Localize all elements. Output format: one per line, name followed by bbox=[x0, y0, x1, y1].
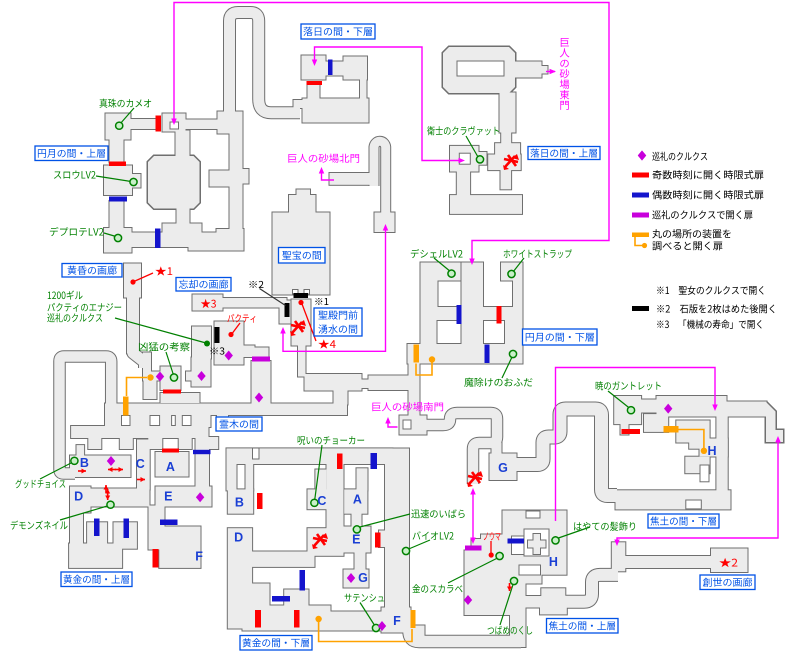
callout デモンズネイル bbox=[60, 506, 109, 521]
巡礼のクルクス diamond bbox=[378, 621, 386, 631]
red dot bbox=[489, 552, 494, 557]
巡礼のクルクス diamond bbox=[638, 151, 646, 161]
label ノウマ bbox=[484, 532, 501, 540]
door black ※2 bbox=[285, 303, 290, 317]
marker circle 衛士のクラヴァット bbox=[476, 156, 483, 163]
area label 忘却の画廊 bbox=[176, 278, 231, 292]
callout はやての髪飾り bbox=[557, 527, 590, 539]
label 迅速のいばら bbox=[411, 509, 464, 518]
legend orange device bbox=[632, 233, 649, 238]
svg-text:F: F bbox=[195, 550, 203, 564]
cross room inside 焦土上層 hole bbox=[528, 534, 547, 555]
pointer 北門 text bbox=[322, 171, 335, 180]
door blue 黄金上層 E bbox=[160, 520, 178, 526]
label はやての髪飾り bbox=[574, 522, 635, 531]
marker circle デシェルLV2 bbox=[448, 270, 455, 277]
callout ※2 bbox=[260, 289, 286, 306]
door blue 焦土上層 bbox=[508, 539, 525, 544]
door orange 焦土下層 bbox=[664, 426, 679, 433]
巡礼のクルクス diamond bbox=[225, 351, 233, 361]
hole 焦土上層 bbox=[524, 529, 549, 556]
label スロウLV2 bbox=[54, 170, 96, 178]
red scribble marker bbox=[312, 533, 328, 549]
orange device dot bbox=[701, 448, 707, 454]
callout ★1 bbox=[135, 273, 153, 281]
red arrow bbox=[78, 470, 86, 472]
label ※3 bbox=[210, 347, 224, 354]
route 焦土下層E-創世 bbox=[617, 440, 778, 542]
marker circle スロウLV2 bbox=[130, 178, 137, 185]
legend red door bbox=[632, 173, 649, 178]
callout 暁のガントレット bbox=[608, 391, 630, 409]
marker circle はやての髪飾り bbox=[552, 537, 559, 544]
red arrow bbox=[107, 492, 109, 500]
callout 凶猛の考察 bbox=[166, 352, 174, 375]
label デシェルLV2 bbox=[411, 249, 463, 258]
door magenta 霊木 bbox=[252, 357, 270, 362]
door red 黄金下層 S1 bbox=[255, 610, 261, 628]
marker circle デプロテLV2 bbox=[114, 234, 121, 241]
svg-text:A: A bbox=[353, 493, 362, 507]
door red ring top bbox=[156, 116, 162, 132]
callout パクティ bbox=[233, 323, 241, 333]
red scribble marker bbox=[467, 471, 483, 487]
callout 迅速のいばら bbox=[358, 514, 410, 528]
door red 黄金上層 top bbox=[162, 449, 179, 453]
pointer 東門 bbox=[546, 71, 555, 73]
door magenta 焦土上層 bbox=[465, 546, 482, 551]
callout 真珠のカメオ bbox=[120, 108, 134, 124]
label 真珠のカメオ bbox=[100, 99, 152, 108]
legend magenta door bbox=[632, 213, 649, 218]
door blue 黄金下層 S bbox=[272, 596, 290, 602]
marker circle つばめのくし bbox=[510, 577, 517, 584]
notch 聖宝 1 bbox=[293, 290, 299, 295]
marker circle 凶猛の考察 bbox=[170, 374, 177, 381]
svg-text:H: H bbox=[707, 444, 716, 458]
red arrow bbox=[115, 469, 123, 471]
callout 巡礼のクルクス device bbox=[115, 318, 206, 343]
callout 呪いのチョーカー bbox=[315, 445, 322, 500]
hole loop 落日上層 bbox=[457, 61, 504, 76]
hole 衛士 square bbox=[459, 153, 470, 164]
door red 黄金上層 F bbox=[153, 549, 159, 568]
notch 焦土上層 top bbox=[526, 511, 540, 518]
label 呪いのチョーカー bbox=[298, 436, 364, 445]
svg-text:E: E bbox=[164, 490, 172, 504]
巡礼のクルクス diamond bbox=[156, 372, 164, 382]
red arrow bbox=[108, 469, 116, 471]
door orange 円月下層 bbox=[414, 345, 420, 363]
hole 焦土下層 S bbox=[700, 465, 709, 482]
巡礼のクルクス diamond bbox=[197, 371, 205, 381]
area label 黄昏の画廊 bbox=[62, 264, 122, 278]
label 暁のガントレット bbox=[596, 381, 661, 390]
巡礼のクルクス diamond bbox=[196, 492, 204, 502]
巡礼のクルクス diamond bbox=[464, 595, 472, 605]
door blue ring left bbox=[109, 197, 127, 202]
device line 霊木 bbox=[127, 378, 148, 397]
door blue 黄金上層 C bbox=[124, 519, 130, 539]
area label 聖殿門前/湧水の間 bbox=[314, 308, 362, 336]
callout バイオLV2 bbox=[408, 540, 431, 550]
device line 円月下層 bbox=[416, 363, 432, 376]
label バイオLV2 bbox=[413, 531, 454, 540]
marker circle 真珠のカメオ bbox=[116, 122, 123, 129]
legend 巡礼のクルクス bbox=[638, 151, 646, 161]
label 凶猛の考察 bbox=[139, 342, 190, 351]
callout 魔除けのおふだ bbox=[502, 356, 513, 378]
marker circle 呪いのチョーカー bbox=[311, 499, 318, 506]
door blue 黄金下層 mid bbox=[300, 570, 306, 591]
svg-text:B: B bbox=[235, 496, 244, 510]
notch 聖宝 2 bbox=[304, 290, 310, 295]
area label 創世の画廊 bbox=[700, 575, 755, 590]
device line 黄金下層F bbox=[319, 621, 412, 642]
red arrow bbox=[509, 583, 511, 591]
red arrow bbox=[137, 479, 145, 481]
callout ★4/※1 bbox=[302, 304, 316, 341]
door red ring left bbox=[109, 162, 126, 167]
door blue ring bottom bbox=[155, 229, 161, 249]
legend ※1 bbox=[657, 286, 763, 295]
svg-text:C: C bbox=[317, 494, 326, 508]
callout 金のスカラベ bbox=[448, 558, 499, 584]
legend blue door bbox=[632, 193, 649, 198]
door red 黄金下層 E bbox=[375, 533, 381, 548]
label 巨人の砂場南門 bbox=[372, 402, 443, 411]
label 1200ギル bbox=[48, 290, 83, 299]
label グッドチョイス bbox=[15, 479, 65, 488]
route 北門stub-湧水 bbox=[283, 228, 386, 351]
orange device dot bbox=[429, 356, 435, 362]
marker circle グッドチョイス bbox=[71, 457, 78, 464]
door red 黄金下層 top bbox=[337, 454, 343, 470]
orange device dot bbox=[147, 374, 153, 380]
red scribble marker bbox=[290, 320, 306, 336]
route 円月上層portal-円月下層 bbox=[174, 3, 609, 262]
label つばめのくし bbox=[488, 626, 533, 635]
door red 黄金下層 B bbox=[257, 493, 263, 509]
svg-text:G: G bbox=[358, 571, 368, 585]
route 南門hook-焦土上層door bbox=[472, 492, 474, 540]
marker circle 迅速のいばら bbox=[353, 526, 360, 533]
callout 衛士のクラヴァット bbox=[466, 136, 478, 157]
callout ホワイトストラップ bbox=[513, 258, 524, 272]
marker circle ホワイトストラップ bbox=[508, 270, 515, 277]
door red 焦土下層 bbox=[622, 429, 641, 434]
area label 焦土の間・下層 bbox=[648, 514, 719, 528]
callout デプロテLV2 bbox=[104, 233, 116, 237]
label 巡礼のクルクス bbox=[47, 313, 102, 322]
巡礼のクルクス diamond bbox=[347, 573, 355, 583]
area label 焦土の間・上層 bbox=[547, 619, 619, 634]
device line 焦土下層 bbox=[679, 430, 704, 449]
area label 落日の間・下層 bbox=[301, 24, 375, 39]
notch 焦土下層 bottom bbox=[686, 500, 702, 509]
door red 円月下層 bbox=[497, 306, 502, 324]
label 巨人の砂場北門 bbox=[288, 154, 359, 163]
marker circle デモンズネイル bbox=[107, 501, 114, 508]
marker circle バイオLV2 bbox=[402, 547, 409, 554]
callout サテンシュ bbox=[360, 603, 375, 627]
svg-text:E: E bbox=[352, 533, 360, 547]
marker circle 魔除けのおふだ bbox=[509, 350, 516, 357]
label サテンシュ bbox=[345, 594, 384, 602]
label 衛士のクラヴァット bbox=[427, 126, 499, 135]
area label 落日の間・上層 bbox=[528, 147, 600, 160]
area label 黄金の間・下層 bbox=[240, 636, 312, 651]
label ※1 bbox=[315, 298, 328, 305]
hole portal room bbox=[170, 122, 179, 129]
巡礼のクルクス diamond bbox=[107, 456, 115, 466]
label デモンズネイル bbox=[11, 520, 68, 529]
marker circle 金のスカラベ bbox=[496, 552, 503, 559]
pointer 南門 text bbox=[388, 421, 398, 427]
door black ※3 bbox=[215, 327, 220, 343]
label パクティ bbox=[227, 314, 255, 323]
label 金のスカラベ bbox=[412, 584, 462, 593]
door blue 円月下層 S bbox=[485, 345, 490, 364]
巡礼のクルクス diamond bbox=[664, 404, 672, 414]
hole 南門 square bbox=[403, 420, 411, 429]
door blue 黄金上層 A bbox=[193, 450, 211, 454]
svg-text:A: A bbox=[166, 460, 175, 474]
red arrow bbox=[105, 485, 107, 493]
red dot bbox=[130, 279, 135, 284]
door black ※1 bbox=[294, 293, 309, 298]
svg-text:C: C bbox=[136, 457, 145, 471]
door orange 黄金下層 F bbox=[411, 610, 416, 628]
label ※2 bbox=[249, 281, 263, 288]
area label 円月の間・上層 bbox=[35, 146, 108, 161]
door blue 円月下層 W bbox=[457, 305, 462, 324]
door red 落日下層 bbox=[307, 81, 323, 85]
door blue 落日下層 bbox=[328, 60, 333, 76]
route 落日下層-衛士room bbox=[315, 47, 460, 161]
door blue 黄金下層 top bbox=[371, 453, 378, 469]
area label 聖宝の間 bbox=[279, 248, 326, 264]
star ★1 bbox=[155, 266, 172, 275]
callout ノウマ bbox=[490, 541, 492, 553]
green device dot 巡礼のクルクス bbox=[204, 341, 210, 347]
svg-text:G: G bbox=[498, 461, 508, 475]
red dot bbox=[298, 300, 303, 305]
label デプロテLV2 bbox=[50, 227, 104, 236]
callout デシェルLV2 bbox=[434, 258, 451, 272]
door blue 黄金上層 W bbox=[94, 519, 100, 537]
legend ※3 bbox=[657, 320, 761, 329]
svg-text:D: D bbox=[74, 490, 83, 504]
red scribble marker bbox=[503, 154, 519, 170]
door red 黄金下層 S2 bbox=[294, 610, 300, 628]
巡礼のクルクス diamond bbox=[255, 393, 263, 403]
callout スロウLV2 bbox=[96, 176, 131, 182]
svg-text:D: D bbox=[234, 531, 243, 545]
area label 円月の間・下層 bbox=[523, 329, 598, 345]
star ★2 bbox=[719, 558, 737, 567]
label 魔除けのおふだ bbox=[464, 378, 532, 387]
marker circle サテンシュ bbox=[372, 624, 379, 631]
star ★4 bbox=[318, 339, 335, 348]
marker circle 暁のガントレット bbox=[627, 407, 634, 414]
callout つばめのくし bbox=[500, 583, 514, 625]
area label 霊木の間 bbox=[216, 417, 262, 431]
door red 凶猛 bbox=[163, 390, 181, 394]
star ★3 bbox=[201, 299, 216, 308]
label ホワイトストラップ bbox=[504, 249, 572, 258]
callout グッドチョイス bbox=[40, 462, 73, 479]
red arrow bbox=[107, 489, 109, 497]
svg-text:F: F bbox=[393, 614, 401, 628]
svg-text:H: H bbox=[549, 555, 558, 569]
red dot bbox=[228, 332, 233, 337]
legend black door bbox=[632, 306, 649, 311]
notch H 焦土上層 bbox=[519, 565, 541, 575]
label パクティのエナジー bbox=[48, 303, 122, 312]
orange device dot bbox=[315, 616, 321, 622]
area label 黄金の間・上層 bbox=[61, 572, 132, 587]
door orange 霊木 bbox=[123, 397, 129, 416]
label 巨人の砂場東門 (vertical) bbox=[561, 38, 569, 47]
svg-text:B: B bbox=[80, 456, 89, 470]
notch 黄金下層 band bbox=[253, 448, 260, 459]
route 焦土上層-焦土下層 bbox=[556, 368, 716, 522]
